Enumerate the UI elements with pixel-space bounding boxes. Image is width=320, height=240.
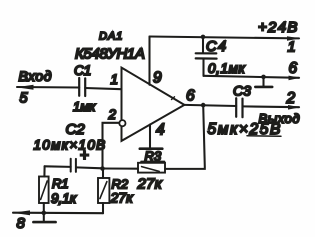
- wire input segment (arrow to C1): [17, 86, 79, 89]
- svg-text:DA1: DA1: [99, 31, 123, 43]
- underline R3: [141, 160, 165, 162]
- resistor R1: [39, 177, 49, 204]
- wire feedback vertical: [165, 105, 205, 169]
- wire R3 to node: [103, 167, 139, 169]
- svg-text:C1: C1: [74, 63, 91, 78]
- inverting input bubble: [119, 120, 125, 126]
- terminal arrow pin 1 (+24В): [287, 36, 300, 41]
- resistor R2: [98, 169, 109, 214]
- svg-text:5: 5: [20, 90, 29, 106]
- wire op-amp output to C3: [184, 105, 236, 106]
- junction dot (C4 tap): [201, 35, 206, 40]
- ground (rail 6): [255, 77, 272, 87]
- terminal arrow pin 8: [12, 210, 30, 215]
- svg-text:К548УН1А: К548УН1А: [75, 46, 145, 63]
- svg-text:C3: C3: [233, 83, 251, 99]
- wire bottom rail: [13, 212, 103, 215]
- svg-text:C2: C2: [66, 121, 86, 138]
- wire pin 4 (down from triangle): [149, 125, 151, 148]
- terminal arrow pin 5 (Вход): [16, 85, 33, 90]
- wire +24V rail: [150, 37, 300, 39]
- svg-text:6: 6: [186, 87, 195, 104]
- terminal arrow pin 6: [289, 76, 301, 81]
- svg-text:10мк×10В: 10мк×10В: [34, 138, 107, 153]
- capacitor C4: [196, 37, 217, 76]
- svg-text:2: 2: [108, 107, 117, 122]
- svg-text:C4: C4: [206, 39, 228, 55]
- svg-text:6: 6: [289, 60, 298, 77]
- svg-text:4: 4: [156, 121, 165, 138]
- svg-text:8: 8: [17, 215, 26, 232]
- capacitor C2: [45, 159, 103, 172]
- svg-text:1: 1: [111, 72, 119, 87]
- svg-text:2: 2: [286, 90, 296, 107]
- svg-text:R1: R1: [52, 176, 69, 191]
- wire pin 2 (bubble to corner to node): [103, 123, 120, 168]
- junction node dot: [100, 166, 105, 171]
- wire C1 to op-amp pin 1: [85, 88, 121, 89]
- capacitor C3: [236, 98, 242, 117]
- terminal arrow pin 2 (Выход): [288, 105, 300, 110]
- wire rail 6: [204, 76, 300, 78]
- junction dot bottom: [42, 211, 47, 216]
- wire pin 9 (up from triangle): [148, 37, 150, 85]
- svg-text:Вход: Вход: [19, 68, 53, 84]
- svg-text:0,1мк: 0,1мк: [208, 61, 245, 76]
- svg-text:1мк: 1мк: [73, 99, 96, 114]
- svg-text:27к: 27к: [110, 190, 135, 206]
- junction dot on rail 6: [261, 75, 266, 80]
- op-amp U1 triangle: [122, 68, 185, 141]
- ground (bottom): [33, 213, 55, 222]
- svg-text:1: 1: [288, 40, 296, 56]
- svg-text:9: 9: [153, 70, 162, 87]
- wire C3 to output terminal: [243, 105, 300, 108]
- wire C2 corner down to R1: [43, 166, 45, 176]
- svg-text:+24В: +24В: [258, 19, 299, 36]
- ground (pin 4): [140, 147, 163, 150]
- junction dot (feedback tap): [201, 103, 206, 108]
- svg-text:27к: 27к: [137, 176, 163, 193]
- underline under 25В: [247, 135, 281, 137]
- resistor R3: [138, 163, 165, 173]
- svg-text:9,1к: 9,1к: [51, 191, 77, 206]
- wire R1 bottom lead: [43, 203, 45, 213]
- mark inside triangle: [172, 97, 175, 100]
- capacitor C1: [79, 78, 85, 96]
